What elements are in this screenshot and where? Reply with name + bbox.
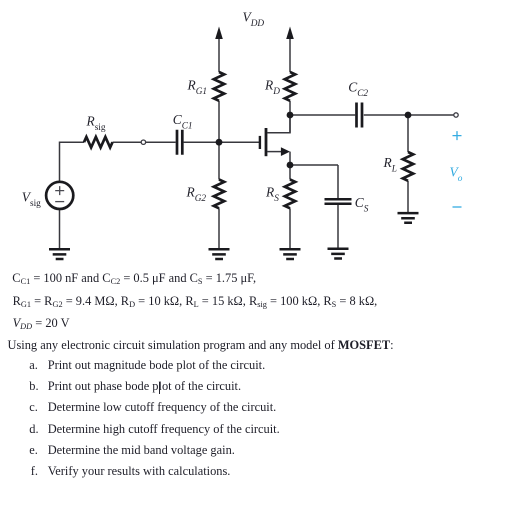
- output node junction dot: [405, 112, 412, 119]
- wire: open node to CC1: [146, 141, 176, 143]
- wire: Rsig to input open node: [113, 141, 142, 143]
- svg-text:Rsig: Rsig: [86, 113, 106, 133]
- VDD arrow left (RG1 branch): [215, 27, 223, 40]
- svg-text:CC1: CC1: [173, 112, 193, 132]
- wire: VDD arrow to RG1: [218, 36, 220, 72]
- input open terminal: [141, 140, 145, 144]
- ground (RL): [398, 213, 419, 223]
- wire: RL to ground: [407, 181, 409, 213]
- list item b: [29, 380, 38, 392]
- svg-text:Vsig: Vsig: [22, 189, 41, 209]
- wire: RS to ground: [289, 208, 291, 249]
- capacitor CC1 plates: [177, 130, 182, 155]
- list item c: [29, 401, 38, 413]
- svg-text:RS: RS: [265, 184, 279, 204]
- output minus sign: [453, 206, 462, 208]
- text line 3: VDD value: [13, 317, 70, 329]
- node G junction dot: [216, 139, 223, 146]
- MOSFET Q1 source lead: [267, 151, 282, 153]
- wire: drain node to RL: [407, 115, 409, 152]
- capacitor CS plates: [325, 199, 352, 204]
- svg-text:CS: CS: [355, 195, 369, 215]
- svg-text:RG1: RG1: [187, 77, 208, 97]
- drain node junction dot: [287, 112, 294, 119]
- MOSFET Q1 gate bar: [259, 136, 261, 149]
- ground (CS): [328, 249, 349, 259]
- MOSFET Q1 drain lead: [267, 115, 290, 133]
- resistor RS: [285, 180, 295, 209]
- output plus sign: [453, 131, 462, 140]
- svg-text:RD: RD: [264, 77, 280, 97]
- list item e: [29, 444, 38, 456]
- list item a: [29, 359, 38, 371]
- wire: RD to drain lead: [289, 101, 291, 133]
- wire: drain node to CC2: [290, 114, 355, 116]
- wire: source lead down through node S to RS: [289, 152, 291, 180]
- resistor Rsig: [84, 137, 112, 148]
- list item f: [31, 465, 38, 477]
- svg-text:VDD: VDD: [243, 10, 265, 30]
- source Vsig circle: [46, 182, 73, 209]
- svg-text:RG2: RG2: [186, 184, 207, 204]
- text line 4: instruction: [8, 339, 394, 351]
- resistor RG2: [214, 180, 224, 209]
- wire: node G to RG2: [218, 142, 220, 179]
- source node junction dot: [287, 162, 294, 169]
- resistor RL: [403, 152, 413, 181]
- wire: Vsig top to Rsig: [60, 142, 85, 181]
- output open terminal: [454, 113, 458, 117]
- Vsig plus sign: [55, 186, 64, 195]
- text caret in line b: [159, 382, 160, 395]
- wire: RG1 to node G: [218, 101, 220, 142]
- wire: VDD arrow to RD: [289, 36, 291, 72]
- Vsig minus sign: [55, 201, 64, 203]
- wire: CS bottom to ground: [337, 204, 339, 249]
- svg-text:Vo: Vo: [450, 164, 463, 184]
- svg-text:RL: RL: [383, 155, 397, 175]
- text line 1: capacitor values: [12, 272, 256, 284]
- wire: RG2 to ground: [218, 208, 220, 249]
- wire: CC1 to gate (through node G): [184, 141, 259, 143]
- wire: CS top: [337, 165, 339, 199]
- resistor RD: [285, 72, 295, 101]
- text line 2: resistor values: [13, 295, 378, 307]
- MOSFET Q1 source arrow: [281, 147, 290, 156]
- wire: CC2 to output terminal: [364, 114, 454, 116]
- svg-text:CC2: CC2: [348, 80, 368, 100]
- ground (Vsig): [49, 249, 70, 259]
- resistor RG1: [214, 72, 224, 101]
- MOSFET Q1 channel bar: [265, 128, 268, 156]
- list item d: [29, 423, 38, 435]
- wire: Vsig bottom to ground: [59, 210, 61, 250]
- ground (RG2): [209, 249, 230, 259]
- wire: node S to CS branch: [290, 164, 338, 166]
- ground (RS): [280, 249, 301, 259]
- VDD arrow right (RD branch): [286, 27, 294, 40]
- capacitor CC2 plates: [357, 103, 363, 128]
